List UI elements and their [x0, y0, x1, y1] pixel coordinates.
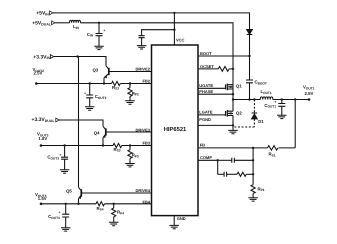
svg-text:Q1: Q1: [236, 84, 242, 89]
svg-text:+3.3VDUAL: +3.3VDUAL: [32, 117, 56, 123]
svg-text:DRIVE3: DRIVE3: [136, 127, 151, 132]
svg-text:+: +: [84, 91, 86, 95]
svg-text:2.5V: 2.5V: [305, 91, 314, 96]
svg-text:+3.3VIN: +3.3VIN: [33, 54, 50, 60]
svg-text:CBOOT: CBOOT: [255, 80, 267, 86]
svg-text:RS3: RS3: [114, 147, 121, 153]
svg-text:RP4: RP4: [117, 210, 124, 216]
svg-text:DRIVE4: DRIVE4: [136, 188, 151, 193]
svg-text:1.8V: 1.8V: [38, 136, 47, 141]
svg-text:VOUT1: VOUT1: [303, 85, 315, 91]
svg-text:RP1: RP1: [258, 186, 265, 192]
svg-text:FB4: FB4: [142, 199, 150, 204]
svg-text:Q2: Q2: [236, 110, 242, 115]
svg-text:BOOT: BOOT: [200, 51, 212, 56]
svg-text:+: +: [103, 29, 105, 33]
svg-text:RS4: RS4: [97, 206, 104, 212]
svg-text:COUT2: COUT2: [95, 94, 107, 100]
svg-text:LOUT1: LOUT1: [261, 89, 272, 95]
svg-text:FB2: FB2: [142, 78, 150, 83]
svg-text:Q4: Q4: [94, 130, 100, 135]
svg-text:+: +: [59, 153, 61, 157]
svg-text:UGATE: UGATE: [199, 83, 213, 88]
svg-text:CIN: CIN: [87, 32, 94, 38]
svg-text:+5VDUAL: +5VDUAL: [32, 21, 52, 27]
svg-text:RP3: RP3: [132, 153, 139, 159]
svg-text:COMP: COMP: [200, 155, 212, 160]
svg-text:LGATE: LGATE: [199, 110, 213, 115]
svg-text:Q5: Q5: [66, 189, 72, 194]
svg-text:RP2: RP2: [132, 91, 139, 97]
svg-text:PHASE: PHASE: [199, 89, 213, 94]
svg-text:FB3: FB3: [142, 140, 150, 145]
svg-text:FB: FB: [200, 143, 205, 148]
svg-text:LIN: LIN: [73, 24, 80, 30]
svg-text:+: +: [275, 100, 277, 104]
svg-text:PGND: PGND: [199, 117, 211, 122]
svg-text:RS1: RS1: [269, 152, 276, 158]
svg-text:DRIVE2: DRIVE2: [136, 66, 151, 71]
svg-text:2.5V: 2.5V: [34, 71, 43, 76]
svg-text:COUT4: COUT4: [48, 214, 60, 220]
svg-text:HIP6521: HIP6521: [164, 126, 187, 133]
svg-text:OCSET: OCSET: [200, 64, 214, 69]
svg-text:RS2: RS2: [112, 85, 119, 91]
svg-text:GND: GND: [177, 216, 186, 221]
svg-text:+: +: [59, 211, 61, 215]
svg-text:VCC: VCC: [176, 37, 185, 42]
svg-text:Q3: Q3: [92, 68, 98, 73]
svg-text:D1: D1: [258, 119, 264, 124]
svg-text:1.5V: 1.5V: [38, 196, 47, 201]
svg-text:COUT3: COUT3: [47, 155, 59, 161]
svg-text:+5VIN: +5VIN: [36, 11, 49, 17]
